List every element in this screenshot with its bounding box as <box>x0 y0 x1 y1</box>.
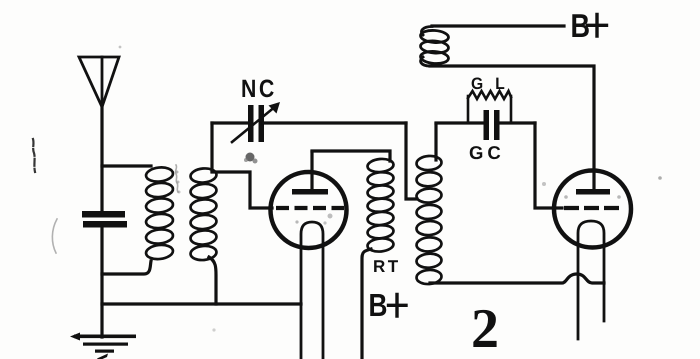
wire RT primary bottom to B+ lead <box>362 249 371 359</box>
tube V1 grid <box>276 206 344 210</box>
coil RT secondary <box>416 155 442 285</box>
tube V2 envelope <box>554 171 631 248</box>
coil L5 plate choke <box>420 27 449 67</box>
antenna <box>79 57 119 107</box>
wire NC drop to coil tap <box>406 123 417 199</box>
wire T1 secondary bottom down to ground bus <box>209 257 216 304</box>
tube V1 filament <box>301 222 323 359</box>
capacitor NC variable <box>248 105 264 142</box>
wire T1 secondary top to NC wire <box>210 123 213 171</box>
label GC <box>470 146 500 159</box>
ground <box>70 333 136 359</box>
label NC <box>242 80 273 98</box>
capacitor C1 <box>82 211 127 228</box>
wire RT secondary top to GL wire <box>434 124 437 160</box>
coil RT primary <box>367 158 394 253</box>
label B+ bottom <box>370 294 386 316</box>
wire T1 primary bottom <box>102 261 151 274</box>
label figure 2 <box>473 310 496 347</box>
wire GL left <box>436 121 484 124</box>
tube V2 grid <box>564 206 620 210</box>
coil L1 T1 primary <box>145 166 173 260</box>
wire RT secondary bottom to V2 filament with hop <box>430 274 604 283</box>
wire NC right to drop <box>263 121 406 124</box>
wire T1 primary top <box>102 164 151 167</box>
wire choke top to B+ <box>432 24 564 27</box>
wire grid drop to tube V2 <box>535 123 562 208</box>
tube V2 filament <box>578 221 604 339</box>
label GL <box>472 77 505 89</box>
wire NC left <box>212 121 248 124</box>
wire capacitor to ground <box>100 227 103 337</box>
label B+ top <box>572 14 589 37</box>
smudge speckles <box>33 46 662 332</box>
resistor GL <box>468 91 511 123</box>
wire ground bus bottom <box>102 302 301 305</box>
wire GC right to grid drop <box>500 121 535 124</box>
capacitor GC <box>484 110 500 140</box>
tube V1 plate <box>292 189 328 195</box>
tube V2 plate <box>576 189 610 195</box>
tube V1 envelope <box>271 172 347 248</box>
wire V1 plate to RT primary <box>312 151 390 161</box>
coil L2 T1 secondary <box>190 167 217 261</box>
wire grid tap to tube V1 <box>212 172 272 208</box>
label RT <box>374 260 398 272</box>
wire antenna mast down to capacitor <box>100 104 103 211</box>
wire choke bottom to V2 plate <box>430 66 594 189</box>
